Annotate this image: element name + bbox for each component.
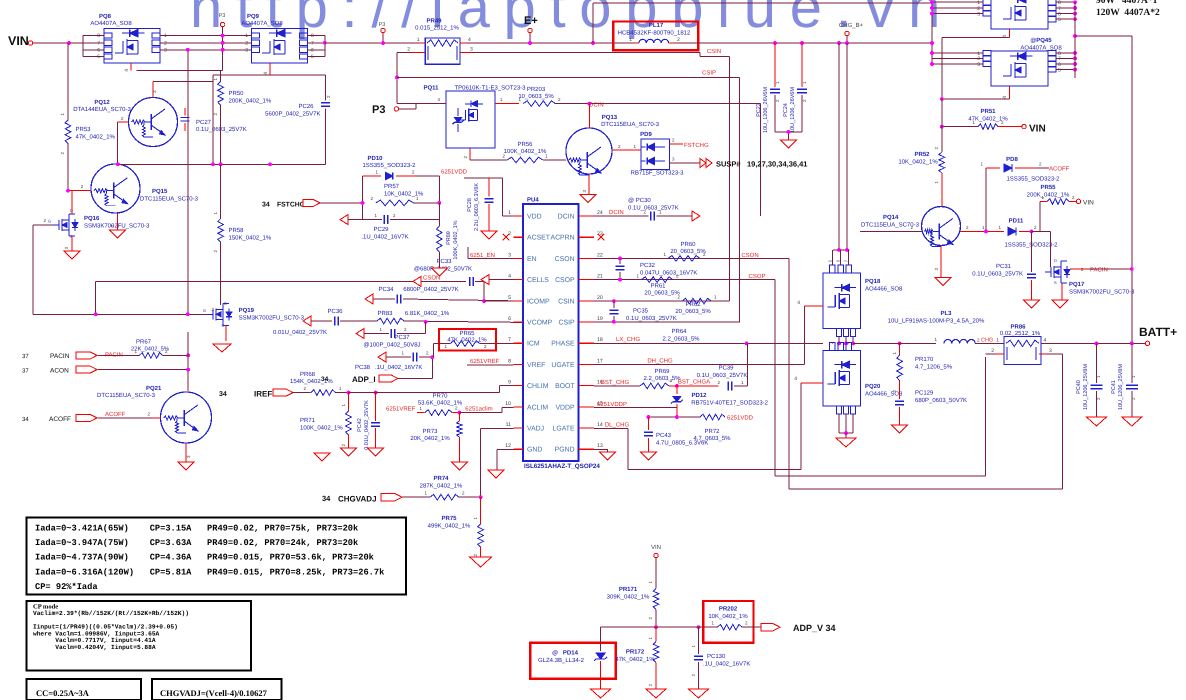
svg-text:PACIN: PACIN (50, 353, 70, 360)
resistor PR55 200K_0402_1% (1027, 184, 1076, 231)
wire PQ21 base (153, 417, 161, 419)
svg-text:6251VDD: 6251VDD (727, 415, 754, 422)
svg-text:5600P_0402_25V7K: 5600P_0402_25V7K (265, 111, 320, 118)
wire PQ21 emitter (186, 443, 191, 462)
resistor PR203 10_0603_5% (518, 86, 589, 106)
svg-text:DCIN: DCIN (609, 209, 624, 216)
transistor PQ14 DTC115EUA_SC70-3 (861, 207, 961, 247)
port ADP_I 34 (352, 357, 432, 384)
svg-text:PC40: PC40 (1076, 380, 1082, 394)
svg-text:ACPRN: ACPRN (550, 235, 574, 242)
svg-text:CHG: CHG (981, 338, 993, 344)
svg-text:3: 3 (470, 47, 473, 53)
svg-text:D: D (1054, 258, 1057, 263)
svg-text:5: 5 (508, 295, 511, 301)
wire PQ8 left bus (83, 36, 104, 57)
resistor PR67 22K_0402_5% (131, 339, 188, 359)
wire rail to PR49 (325, 42, 419, 44)
svg-text:VIN: VIN (651, 544, 661, 551)
wire PQ15 emitter (110, 213, 118, 230)
svg-text:PR60: PR60 (680, 241, 696, 248)
svg-text:S: S (1054, 280, 1057, 285)
port ACON 37 (22, 366, 190, 374)
svg-text:CSOP: CSOP (748, 273, 765, 280)
svg-text:PR89: PR89 (446, 231, 452, 245)
svg-text:CC=0.25A~3A: CC=0.25A~3A (36, 688, 90, 698)
ground PQ20 (836, 438, 856, 447)
svg-text:3: 3 (508, 252, 511, 258)
svg-text:309K_0402_1%: 309K_0402_1% (607, 594, 650, 601)
wire PQ16 source (64, 236, 72, 251)
ground PC42 (368, 448, 384, 456)
svg-text:24: 24 (597, 210, 603, 216)
svg-text:PR55: PR55 (1040, 184, 1056, 191)
svg-text:PR83: PR83 (377, 310, 393, 317)
svg-text:ICOMP: ICOMP (527, 298, 550, 305)
svg-text:VIN: VIN (1083, 200, 1094, 207)
svg-text:CSIN: CSIN (707, 48, 721, 55)
wire PQ14 base (860, 225, 922, 231)
diode PD9 RB715F_SOT323-3 (dual) (630, 131, 700, 177)
svg-text:Vaclm=0.4204V, Iinput=5.88A: Vaclm=0.4204V, Iinput=5.88A (33, 644, 156, 651)
svg-text:SSM3K7002FU_SC70-3: SSM3K7002FU_SC70-3 (239, 315, 305, 322)
svg-text:1SS355_SOD323-2: 1SS355_SOD323-2 (1006, 176, 1060, 183)
svg-text:PC34: PC34 (378, 286, 394, 293)
svg-text:PC39: PC39 (718, 365, 734, 372)
svg-text:19: 19 (597, 316, 603, 322)
port VIN (right1) (1022, 124, 1046, 135)
svg-text:ACSET: ACSET (527, 235, 551, 242)
svg-text:0.01U_0402_25V7K: 0.01U_0402_25V7K (364, 400, 370, 450)
svg-text:6: 6 (97, 47, 100, 53)
svg-text:CSIN: CSIN (558, 298, 574, 305)
svg-text:ICM: ICM (527, 341, 540, 348)
svg-text:499K_0402_1%: 499K_0402_1% (428, 523, 471, 530)
svg-text:PR202: PR202 (719, 606, 738, 613)
svg-text:PL17: PL17 (649, 22, 664, 29)
svg-text:ACON: ACON (50, 367, 69, 374)
svg-text:PACIN: PACIN (1090, 267, 1108, 274)
node PR67 out (186, 332, 190, 391)
svg-text:6251VREF: 6251VREF (470, 358, 500, 365)
svg-text:PC27: PC27 (196, 119, 212, 126)
svg-text:10U_1206_25V8M: 10U_1206_25V8M (1083, 364, 1089, 410)
resistor PR62 20_0603_5% (675, 295, 717, 316)
label 90W 4407A*1 (1096, 0, 1158, 6)
ground PC129 (892, 425, 908, 433)
svg-text:http://laptopblue.vn: http://laptopblue.vn (190, 0, 954, 40)
svg-text:1: 1 (508, 210, 511, 216)
resistor PR65 47K_0402_1% (highlighted) (433, 329, 513, 357)
wire PQ13 to PD9 (612, 144, 641, 150)
svg-text:@100P_0402_50V8J: @100P_0402_50V8J (363, 342, 420, 349)
capacitor PC24 10U_1206_26V6M (783, 43, 807, 133)
port VIN (bottom) (651, 544, 661, 589)
arrow CELLS (481, 275, 514, 285)
ground PC31 (1023, 300, 1039, 308)
svg-text:8: 8 (97, 33, 100, 39)
ground PQ19 (213, 344, 231, 352)
ground PR73 (451, 462, 467, 470)
svg-text:100K_0402_1%: 100K_0402_1% (504, 148, 547, 155)
node ICOMP junction (482, 299, 486, 303)
svg-text:CHLIM: CHLIM (527, 383, 549, 390)
svg-text:2.2U_0603_6.3V8K: 2.2U_0603_6.3V8K (474, 183, 480, 231)
svg-text:PR65: PR65 (459, 330, 475, 337)
node VIN junction (67, 41, 71, 45)
capacitor PC39 0.1U_0603_25V7K (697, 343, 748, 390)
svg-text:FSTCHG: FSTCHG (277, 202, 305, 209)
svg-text:13: 13 (597, 443, 603, 449)
svg-text:Iada=0~4.737A(90W) CP=4.36A: Iada=0~4.737A(90W) CP=4.36A PR49=0.015, … (35, 553, 374, 563)
wire left-pins bus (E+ feed) (930, 3, 934, 64)
wire PQ13 collector (588, 104, 590, 128)
svg-text:ACOFF: ACOFF (105, 411, 126, 418)
svg-text:PR171: PR171 (619, 586, 638, 593)
svg-text:3: 3 (977, 62, 980, 68)
net 6251VREF label (VREF) (467, 358, 514, 365)
svg-text:PC29: PC29 (373, 226, 389, 233)
svg-text:0.1U_0603_25V7K: 0.1U_0603_25V7K (196, 126, 247, 133)
wire mid bus y166 (116, 162, 326, 166)
net CSON wire (left) (94, 275, 466, 317)
net CSON riser/run (789, 258, 1062, 488)
svg-text:ISL6251AHAZ-T_QSOP24: ISL6251AHAZ-T_QSOP24 (524, 463, 600, 470)
svg-text:PC35: PC35 (633, 308, 649, 315)
svg-text:CHGVADJ: CHGVADJ (338, 495, 377, 504)
svg-text:PC36: PC36 (327, 308, 343, 315)
net DH_CHG row (UGATE) (594, 306, 805, 364)
arrow VCOMP left (303, 316, 332, 326)
transistor PQ9 AO4407A_SO8 (241, 13, 314, 75)
svg-text:CELLS: CELLS (527, 277, 549, 284)
svg-text:0.1U_0603_25V7K: 0.1U_0603_25V7K (626, 315, 677, 322)
svg-text:5: 5 (1058, 17, 1061, 23)
node switch junction (853, 342, 936, 346)
svg-text:FSTCHG: FSTCHG (684, 142, 709, 149)
capacitor PC33 680P_0402_50V7K (414, 258, 484, 301)
wire DCIN vertical join (740, 215, 761, 217)
wire PC23/PC24 gnd bus (775, 130, 802, 140)
capacitor PC40 10U_1206_25V8M (1076, 343, 1103, 417)
transistor PQ45 AO4407A_SO8 (930, 37, 1077, 99)
svg-text:VIN: VIN (1029, 124, 1046, 135)
wire PQ12 base link (118, 116, 129, 152)
svg-text:17: 17 (597, 358, 603, 364)
svg-text:8: 8 (508, 358, 511, 364)
capacitor PC29 .1U_0402_16V7K (340, 203, 439, 241)
svg-text:1SS355_SOD323-2: 1SS355_SOD323-2 (362, 162, 416, 169)
ground PGND (600, 452, 616, 460)
resistor PR171 309K_0402_1% (607, 581, 659, 628)
svg-text:PQ19: PQ19 (239, 307, 255, 314)
wire CHLIM (500, 385, 514, 387)
svg-text:10K_0402_1%: 10K_0402_1% (708, 613, 748, 620)
svg-text:PC31: PC31 (996, 263, 1012, 270)
op-amp U4 ISL6251AHAZ-T_QSOP24 (charger IC PU4) (505, 197, 603, 471)
wire rail PL17 to right (675, 42, 932, 44)
inductor PL17 HCB4532KF-800T90_1812 (highlighted) (613, 22, 698, 51)
svg-text:PD11: PD11 (1009, 218, 1024, 225)
svg-text:34: 34 (22, 416, 29, 423)
svg-text:PC43: PC43 (656, 432, 672, 439)
net CSIN row (594, 299, 729, 303)
wire row3 drop (186, 48, 190, 314)
wire GND pin to ground (497, 450, 514, 470)
svg-text:ADP_I: ADP_I (352, 375, 376, 384)
svg-text:PC28: PC28 (467, 198, 473, 212)
svg-text:PD10: PD10 (367, 155, 383, 162)
svg-text:150K_0402_1%: 150K_0402_1% (229, 235, 272, 242)
svg-text:CSIP: CSIP (702, 70, 716, 77)
svg-text:4: 4 (263, 72, 269, 75)
svg-text:0.1U_0603_25V7K: 0.1U_0603_25V7K (628, 205, 679, 212)
port CHGVADJ 34 (322, 494, 430, 504)
svg-text:P3: P3 (372, 104, 385, 116)
svg-text:VIN: VIN (8, 34, 29, 48)
port PACIN 37 (22, 352, 97, 360)
net 6251_EN label (468, 247, 514, 259)
svg-text:SSM3K7002FU_SC70-3: SSM3K7002FU_SC70-3 (1069, 289, 1135, 296)
svg-text:10U_LF919AS-100M-P3_4.5A_20%: 10U_LF919AS-100M-P3_4.5A_20% (888, 318, 985, 325)
svg-text:HCB4532KF-800T90_1812: HCB4532KF-800T90_1812 (618, 30, 691, 37)
svg-text:DL_CHG: DL_CHG (605, 422, 630, 429)
wire IREF to CHLIM (500, 386, 514, 393)
svg-text:.1U_0402_16V7K: .1U_0402_16V7K (703, 661, 750, 668)
svg-text:AO4407A_SO8: AO4407A_SO8 (241, 20, 283, 27)
svg-text:PC26: PC26 (298, 103, 314, 110)
resistor PR52 10K_0402_1% (898, 99, 944, 207)
capacitor PC32 0.047U_0603_16V7K (616, 258, 698, 279)
diode PD11 1SS355_SOD323-2 (984, 218, 1058, 249)
port E+ (524, 15, 538, 45)
node BST_CHGA (669, 379, 719, 388)
svg-text:VDD: VDD (527, 214, 542, 221)
svg-text:20_0603_5%: 20_0603_5% (670, 248, 706, 255)
svg-text:4.7_0603_5%: 4.7_0603_5% (693, 435, 731, 442)
svg-text:ACLIM: ACLIM (527, 404, 548, 411)
wire PQ20 source bus (839, 431, 853, 438)
capacitor PC38 .1U_0402_16V7K (355, 351, 434, 371)
net FSTCHG label (684, 142, 709, 149)
diode PD10 1SS355_SOD323-2 (362, 155, 439, 220)
svg-text:3: 3 (977, 11, 980, 17)
ground PC41 (1122, 417, 1142, 426)
svg-text:PC130: PC130 (707, 653, 726, 660)
svg-text:G: G (203, 308, 206, 313)
svg-text:PQ8: PQ8 (99, 13, 112, 20)
svg-text:3: 3 (245, 47, 248, 53)
ground PC40 (1087, 417, 1107, 426)
wire 6251VDD to VDD (464, 178, 514, 216)
svg-text:4: 4 (1002, 96, 1008, 99)
svg-text:CSIP: CSIP (559, 320, 575, 327)
capacitor PC43 4.7U_0805_6.3V6K (644, 417, 708, 452)
resistor PR172 47K_0402_1% (615, 627, 658, 689)
svg-text:CSON: CSON (741, 252, 758, 259)
svg-text:PC41: PC41 (1111, 380, 1117, 394)
ground PC28 (481, 231, 497, 239)
resistor PR89 100K_0402_1% (vertical) (436, 203, 459, 268)
svg-text:PR86: PR86 (1010, 324, 1026, 331)
wire PQ8-PQ9 rows (160, 36, 251, 50)
svg-text:PR52: PR52 (914, 151, 930, 158)
transistor PQ19 SSM3K7002FU_SC70-3 (203, 301, 305, 328)
transistor PQ15 DTC115EUA_SC70-3 (91, 164, 199, 213)
svg-text:PR58: PR58 (229, 227, 245, 234)
svg-text:2: 2 (407, 47, 410, 53)
ground PQ15 (110, 230, 126, 238)
svg-text:PR74: PR74 (433, 475, 449, 482)
net BST_CHG row (BOOT) (594, 379, 640, 386)
wire PQ12 emitter up (152, 81, 213, 97)
svg-text:5: 5 (97, 54, 100, 60)
svg-text:Iada=0~3.947A(75W) CP=3.63A: Iada=0~3.947A(75W) CP=3.63A PR49=0.02, P… (35, 538, 358, 548)
node E+ riser (591, 3, 932, 45)
svg-text:Iada=0~3.421A(65W) CP=3.15A: Iada=0~3.421A(65W) CP=3.15A PR49=0.02, P… (35, 524, 358, 534)
capacitor PC42 0.01U_0402_25V7K (357, 393, 380, 450)
ground PQ13 (580, 195, 596, 203)
transistor PQ18 AO4466_SO8 (797, 250, 903, 345)
svg-text:PR56: PR56 (517, 141, 533, 148)
wire PQ15 collector (117, 152, 119, 164)
net 6251VREF label (ACLIM) (386, 406, 425, 413)
svg-text:BATT+: BATT+ (1139, 325, 1177, 339)
resistor PR64 2.2_0603_5% (662, 328, 700, 343)
svg-text:AO4407A_SO8: AO4407A_SO8 (90, 20, 132, 27)
svg-text:DTA144EUA_SC70-3: DTA144EUA_SC70-3 (73, 106, 131, 113)
svg-text:SUSP#: SUSP# (716, 160, 741, 169)
capacitor PC31 0.1U_0603_25V7K (972, 231, 1036, 300)
svg-text:PD12: PD12 (691, 392, 707, 399)
svg-text:287K_0402_1%: 287K_0402_1% (420, 483, 463, 490)
resistor PR56 100K_0402_1% (470, 141, 566, 163)
capacitor PC130 .1U_0402_16V7K (691, 627, 750, 689)
svg-text:20_0603_5%: 20_0603_5% (644, 290, 680, 297)
capacitor PC23 10U_1206_26V6M (756, 43, 780, 133)
port BATT+ (1139, 325, 1177, 346)
svg-text:22: 22 (597, 252, 603, 258)
wire PQ16 gate (33, 218, 53, 225)
net 6251VDD label (left) (441, 169, 468, 176)
transistor PQ17 SSM3K7002FU_SC70-3 (1045, 231, 1135, 300)
diode PD8 1SS355_SOD323-2 (980, 156, 1060, 231)
diode PD12 RB751V-40TE17_SOD323-2 (671, 386, 769, 417)
svg-text:1: 1 (629, 37, 632, 43)
svg-text:VDDP: VDDP (555, 404, 575, 411)
svg-text:PR72: PR72 (704, 428, 720, 435)
svg-text:CP= 92%*Iada: CP= 92%*Iada (35, 582, 98, 592)
svg-text:PR70: PR70 (432, 393, 448, 400)
net DCIN label (top) (589, 102, 740, 109)
resistor PR74 287K_0402_1% (420, 475, 483, 500)
svg-text:0.1U_0603_25V7K: 0.1U_0603_25V7K (697, 372, 748, 379)
net CSIN wire (472, 48, 729, 301)
svg-text:PGND: PGND (555, 447, 575, 454)
svg-text:4: 4 (1044, 338, 1047, 344)
ground PC130 (689, 689, 709, 698)
wire PQ9 right bus (307, 36, 326, 57)
svg-text:PC42: PC42 (357, 418, 363, 432)
svg-text:LGATE: LGATE (553, 426, 575, 433)
inductor PL3 10U_LF919AS-100M-P3_4.5A_20% (888, 310, 1004, 344)
svg-text:PR64: PR64 (671, 328, 687, 335)
svg-text:2: 2 (677, 37, 680, 43)
svg-text:12: 12 (505, 443, 511, 449)
svg-text:47K_0402_1%: 47K_0402_1% (76, 134, 116, 141)
diode PD14 GLZ4.3B_LL34-2 (highlighted) (530, 627, 615, 689)
wire bus to BATT vertical (1073, 34, 1132, 343)
table CP mode formulas (27, 601, 251, 671)
resistor PR61 20_0603_5% (636, 274, 680, 297)
svg-text:CSON: CSON (555, 256, 575, 263)
node PC23 junction (773, 41, 849, 45)
svg-text:4: 4 (124, 69, 130, 72)
svg-text:4: 4 (797, 300, 800, 306)
svg-text:PR71: PR71 (300, 417, 316, 424)
svg-text:AO4466_SO8: AO4466_SO8 (865, 391, 903, 398)
wire BATT+ rail (1041, 342, 1145, 346)
svg-text:1: 1 (996, 338, 999, 344)
svg-text:34: 34 (219, 391, 227, 398)
svg-text:PQ17: PQ17 (1069, 281, 1085, 288)
svg-text:BST_CHG: BST_CHG (601, 379, 630, 386)
svg-text:SSM3K7002FU_SC70-3: SSM3K7002FU_SC70-3 (84, 223, 150, 230)
resistor PR170 4.7_1206_5% (892, 343, 953, 399)
capacitor PC35 0.1U_0603_25V7K (609, 301, 676, 322)
svg-text:DH_CHG: DH_CHG (647, 358, 673, 365)
svg-text:RB715F_SOT323-3: RB715F_SOT323-3 (630, 170, 684, 177)
resistor PR57 10K_0402_1% (361, 183, 442, 206)
capacitor PC34 6800P_0402_25V7K (365, 286, 523, 304)
transistor PQ44 AO4407A_SO8 (top, cut) (930, 0, 1077, 38)
svg-text:10_0603_5%: 10_0603_5% (518, 93, 554, 100)
svg-text:1: 1 (245, 33, 248, 39)
svg-text:6.81K_0402_1%: 6.81K_0402_1% (405, 310, 450, 317)
svg-text:GLZ4.3B_LL34-2: GLZ4.3B_LL34-2 (538, 657, 585, 664)
net ACOFF label (right) (1049, 166, 1070, 173)
arrow DCIN out (683, 211, 700, 221)
svg-text:6251VREF: 6251VREF (386, 406, 416, 413)
wire DL run to PQ20 gate (628, 383, 801, 470)
svg-text:CHG_B+: CHG_B+ (839, 22, 864, 29)
svg-text:34: 34 (322, 494, 331, 503)
label 120W 4407A*2 (1096, 8, 1160, 18)
transistor PQ12 DTA144EUA_SC70-3 (73, 98, 177, 147)
resistor PR51 47K_0402_1% (940, 108, 1022, 129)
port FSTCHG 34 (262, 199, 363, 208)
capacitor PC28 2.2U_0603_6.3V8K (467, 178, 493, 231)
svg-text:LX_CHG: LX_CHG (616, 336, 640, 343)
svg-text:PC129: PC129 (915, 390, 934, 397)
wire VDDP node (647, 415, 701, 419)
net ACOFF label (98, 411, 153, 418)
svg-text:100K_0402_1%: 100K_0402_1% (300, 425, 343, 432)
net PACIN label (98, 352, 139, 359)
svg-text:34: 34 (262, 202, 270, 209)
wire rail PR49 to PL17 (466, 42, 634, 44)
resistor PR53 47K_0402_1% (60, 43, 116, 191)
resistor PR86 0.02_2512_1% (sense) (985, 324, 1062, 365)
svg-text:18: 18 (597, 337, 603, 343)
nc ACSET pin2 (503, 234, 509, 240)
svg-text:DTC115EUA_SC70-3: DTC115EUA_SC70-3 (97, 392, 156, 399)
transistor PQ16 SSM3K7002FU_SC70-3 (48, 208, 150, 239)
svg-text:ACOFF: ACOFF (1049, 166, 1070, 173)
ground PQ14 (935, 278, 951, 286)
svg-text:P3: P3 (219, 13, 226, 19)
net CSOP row (594, 273, 775, 282)
